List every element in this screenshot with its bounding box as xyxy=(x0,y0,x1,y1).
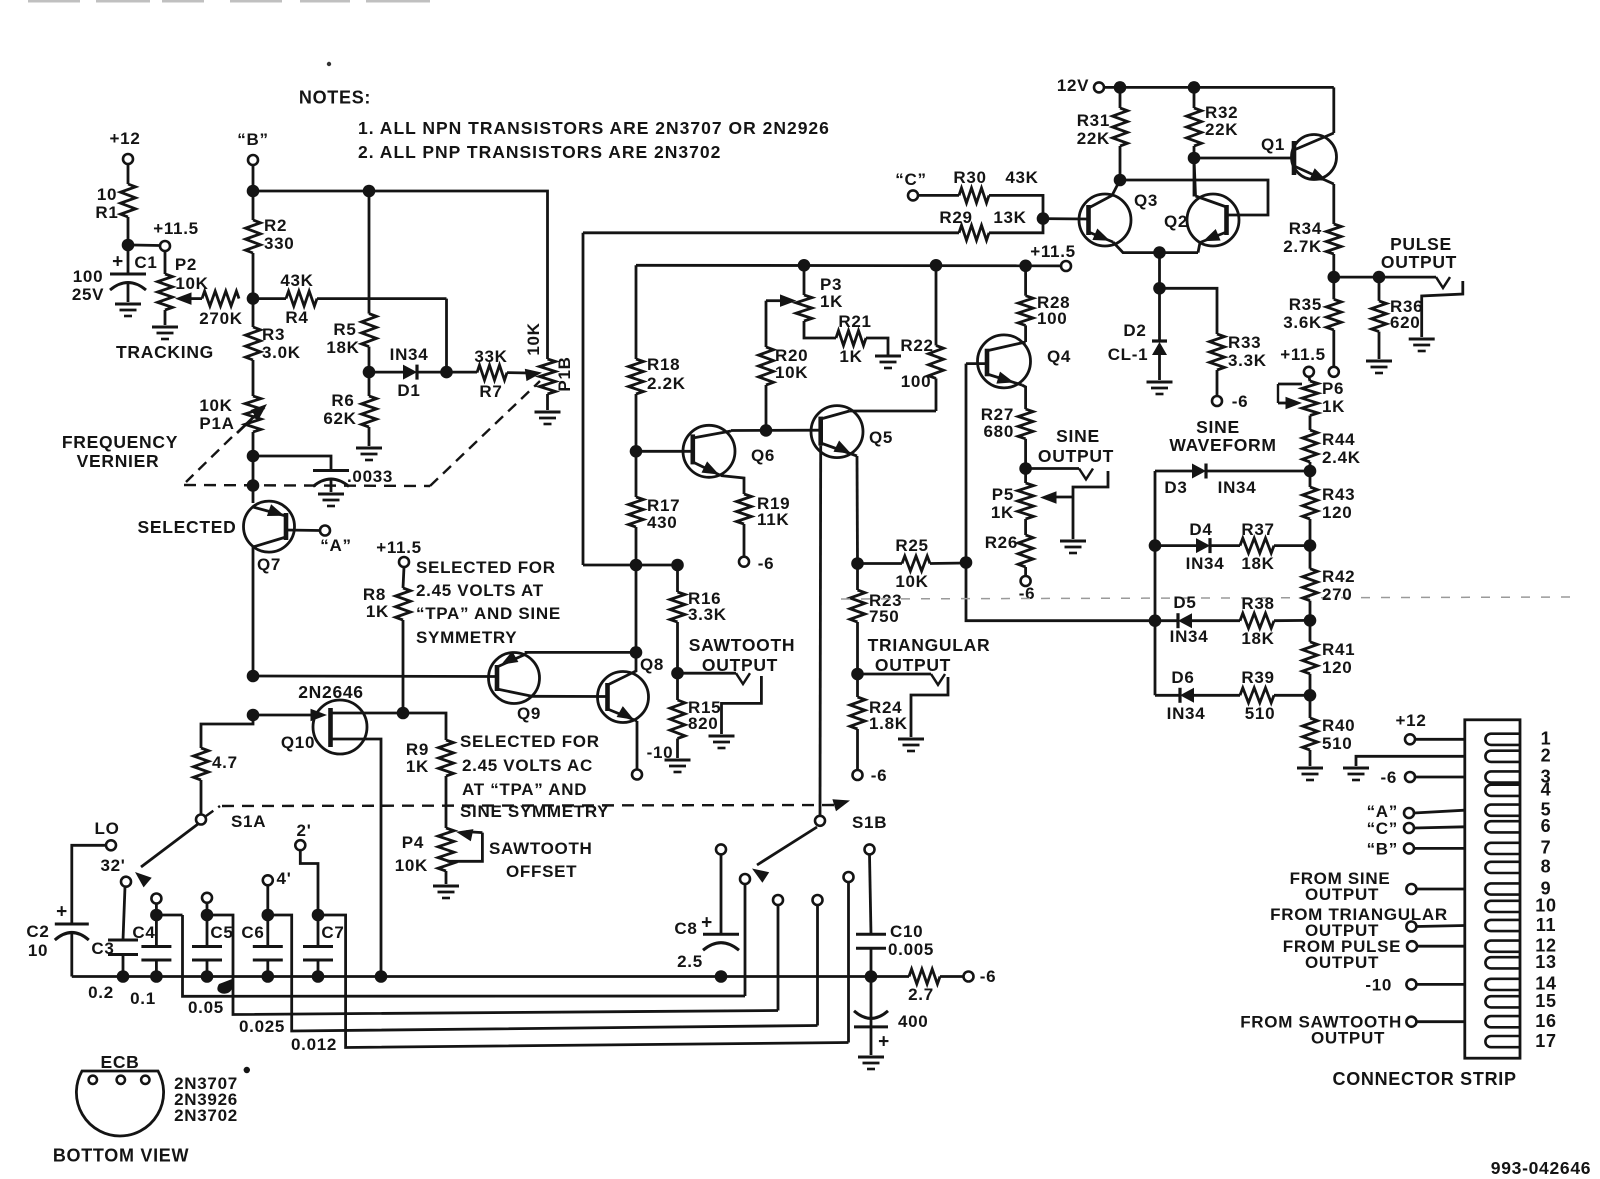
svg-text:TRIANGULAR: TRIANGULAR xyxy=(868,635,991,655)
svg-text:8: 8 xyxy=(1541,857,1552,877)
svg-text:18K: 18K xyxy=(1241,629,1274,648)
svg-text:OUTPUT: OUTPUT xyxy=(1311,1028,1385,1047)
svg-text:2': 2' xyxy=(297,821,312,840)
svg-text:R21: R21 xyxy=(838,312,871,331)
svg-text:10K: 10K xyxy=(395,856,428,875)
svg-text:“C”: “C” xyxy=(895,170,926,189)
svg-text:IN34: IN34 xyxy=(1167,704,1206,723)
svg-text:R3: R3 xyxy=(262,325,285,344)
svg-text:IN34: IN34 xyxy=(390,345,429,364)
svg-text:AT “TPA” AND: AT “TPA” AND xyxy=(462,780,587,799)
svg-text:R25: R25 xyxy=(895,536,928,555)
svg-text:680: 680 xyxy=(984,422,1014,441)
svg-text:2.45 VOLTS AT: 2.45 VOLTS AT xyxy=(416,581,544,600)
svg-text:IN34: IN34 xyxy=(1218,478,1257,497)
svg-text:13: 13 xyxy=(1535,952,1556,972)
svg-text:1K: 1K xyxy=(991,503,1014,522)
svg-text:IN34: IN34 xyxy=(1170,627,1209,646)
svg-text:1K: 1K xyxy=(406,757,429,776)
svg-text:“B”: “B” xyxy=(237,130,268,149)
svg-text:100: 100 xyxy=(901,372,931,391)
svg-text:P1B: P1B xyxy=(555,356,574,391)
svg-text:12V: 12V xyxy=(1057,76,1089,95)
svg-text:C10: C10 xyxy=(890,922,923,941)
svg-text:43K: 43K xyxy=(1005,168,1038,187)
svg-text:1K: 1K xyxy=(1322,397,1345,416)
svg-text:“A”: “A” xyxy=(320,536,351,555)
svg-text:SINE: SINE xyxy=(1056,426,1100,446)
svg-text:15: 15 xyxy=(1535,991,1556,1011)
svg-text:+11.5: +11.5 xyxy=(1030,242,1076,261)
svg-text:-6: -6 xyxy=(980,967,997,986)
svg-text:10K: 10K xyxy=(199,396,232,415)
svg-text:C7: C7 xyxy=(321,923,344,942)
svg-text:D1: D1 xyxy=(397,381,420,400)
svg-text:Q8: Q8 xyxy=(640,655,664,674)
svg-text:OUTPUT: OUTPUT xyxy=(1381,252,1457,272)
svg-text:100: 100 xyxy=(73,267,103,286)
svg-text:PULSE: PULSE xyxy=(1390,234,1452,254)
svg-text:P1A: P1A xyxy=(199,414,234,433)
svg-text:7: 7 xyxy=(1541,838,1552,858)
svg-text:Q3: Q3 xyxy=(1134,191,1158,210)
svg-text:270: 270 xyxy=(1322,585,1352,604)
svg-text:-6: -6 xyxy=(871,766,888,785)
svg-text:C8: C8 xyxy=(674,919,697,938)
svg-text:SELECTED FOR: SELECTED FOR xyxy=(416,558,556,577)
svg-text:3.3K: 3.3K xyxy=(1228,351,1267,370)
svg-text:C4: C4 xyxy=(132,923,155,942)
svg-text:D5: D5 xyxy=(1173,593,1196,612)
svg-text:22K: 22K xyxy=(1205,120,1238,139)
svg-text:10K: 10K xyxy=(775,363,808,382)
svg-text:10K: 10K xyxy=(524,322,543,355)
svg-text:13K: 13K xyxy=(993,208,1026,227)
svg-text:+12: +12 xyxy=(1396,711,1427,730)
svg-text:R44: R44 xyxy=(1322,430,1355,449)
svg-text:10: 10 xyxy=(97,185,117,204)
svg-text:R43: R43 xyxy=(1322,485,1355,504)
svg-text:+: + xyxy=(701,913,713,934)
svg-text:120: 120 xyxy=(1322,503,1352,522)
svg-text:-6: -6 xyxy=(758,554,775,573)
svg-text:LO: LO xyxy=(94,819,119,838)
svg-text:Q5: Q5 xyxy=(869,428,893,447)
svg-text:11K: 11K xyxy=(757,510,789,529)
svg-text:S1A: S1A xyxy=(231,812,266,831)
svg-text:C6: C6 xyxy=(241,923,264,942)
svg-text:R33: R33 xyxy=(1228,333,1261,352)
svg-text:4': 4' xyxy=(277,869,292,888)
svg-text:R29: R29 xyxy=(939,208,972,227)
svg-text:32': 32' xyxy=(100,856,125,875)
svg-text:R40: R40 xyxy=(1322,716,1355,735)
svg-text:R42: R42 xyxy=(1322,567,1355,586)
svg-text:OFFSET: OFFSET xyxy=(506,862,577,881)
svg-text:SINE: SINE xyxy=(1196,417,1240,437)
svg-text:10: 10 xyxy=(1535,896,1556,916)
svg-text:“C”: “C” xyxy=(1367,819,1398,838)
svg-text:330: 330 xyxy=(264,234,294,253)
svg-text:1. ALL NPN TRANSISTORS ARE 2N: 1. ALL NPN TRANSISTORS ARE 2N3707 OR 2N2… xyxy=(358,118,830,138)
svg-text:400: 400 xyxy=(898,1012,928,1031)
svg-text:3.6K: 3.6K xyxy=(1283,313,1322,332)
svg-text:510: 510 xyxy=(1245,704,1275,723)
svg-text:100: 100 xyxy=(1037,309,1067,328)
svg-text:0.012: 0.012 xyxy=(291,1035,337,1054)
svg-text:VERNIER: VERNIER xyxy=(77,451,160,471)
svg-text:+11.5: +11.5 xyxy=(376,538,422,557)
svg-text:2.5: 2.5 xyxy=(677,952,703,971)
svg-text:17: 17 xyxy=(1535,1031,1556,1051)
svg-text:D3: D3 xyxy=(1164,478,1187,497)
svg-text:SAWTOOTH: SAWTOOTH xyxy=(489,839,593,858)
svg-text:2.45 VOLTS AC: 2.45 VOLTS AC xyxy=(462,756,593,775)
svg-text:R1: R1 xyxy=(95,203,118,222)
svg-text:0.2: 0.2 xyxy=(88,983,114,1002)
svg-text:4.7: 4.7 xyxy=(212,753,238,772)
svg-text:62K: 62K xyxy=(323,409,356,428)
svg-text:C3: C3 xyxy=(91,939,114,958)
svg-text:R41: R41 xyxy=(1322,640,1355,659)
svg-text:43K: 43K xyxy=(280,271,313,290)
svg-text:SAWTOOTH: SAWTOOTH xyxy=(689,635,795,655)
svg-text:3.3K: 3.3K xyxy=(688,605,727,624)
svg-text:18K: 18K xyxy=(1241,554,1274,573)
svg-text:OUTPUT: OUTPUT xyxy=(702,655,778,675)
svg-text:R39: R39 xyxy=(1241,668,1274,687)
svg-text:R22: R22 xyxy=(900,336,933,355)
svg-text:6: 6 xyxy=(1541,816,1552,836)
svg-text:R18: R18 xyxy=(647,355,680,374)
svg-text:D2: D2 xyxy=(1123,321,1146,340)
svg-text:Q1: Q1 xyxy=(1261,135,1285,154)
svg-text:BOTTOM VIEW: BOTTOM VIEW xyxy=(53,1145,189,1165)
svg-text:270K: 270K xyxy=(199,309,242,328)
svg-text:2N2646: 2N2646 xyxy=(298,682,364,702)
svg-text:2.7K: 2.7K xyxy=(1283,237,1322,256)
svg-text:TRACKING: TRACKING xyxy=(116,342,214,362)
svg-text:Q4: Q4 xyxy=(1047,347,1071,366)
svg-text:0.05: 0.05 xyxy=(188,998,224,1017)
svg-text:WAVEFORM: WAVEFORM xyxy=(1169,435,1276,455)
svg-text:22K: 22K xyxy=(1077,129,1110,148)
svg-text:.0033: .0033 xyxy=(347,467,393,486)
svg-text:OUTPUT: OUTPUT xyxy=(1305,885,1379,904)
svg-text:S1B: S1B xyxy=(852,813,887,832)
svg-text:OUTPUT: OUTPUT xyxy=(875,655,951,675)
svg-text:CL-1: CL-1 xyxy=(1108,345,1149,364)
svg-text:1K: 1K xyxy=(820,292,843,311)
svg-text:P4: P4 xyxy=(402,833,424,852)
svg-text:D6: D6 xyxy=(1171,668,1194,687)
svg-text:+: + xyxy=(56,902,68,923)
svg-text:D4: D4 xyxy=(1189,520,1212,539)
svg-text:993-042646: 993-042646 xyxy=(1491,1158,1591,1178)
svg-text:0.005: 0.005 xyxy=(888,940,934,959)
svg-text:0.1: 0.1 xyxy=(130,989,156,1008)
svg-text:10: 10 xyxy=(28,941,48,960)
svg-text:R5: R5 xyxy=(333,320,356,339)
svg-text:R6: R6 xyxy=(331,391,354,410)
svg-text:R4: R4 xyxy=(285,308,308,327)
svg-text:33K: 33K xyxy=(474,347,507,366)
svg-text:0.025: 0.025 xyxy=(239,1017,285,1036)
svg-text:SELECTED: SELECTED xyxy=(138,517,237,537)
svg-text:-6: -6 xyxy=(1232,392,1249,411)
svg-text:25V: 25V xyxy=(72,285,104,304)
svg-text:+11.5: +11.5 xyxy=(1280,345,1326,364)
svg-text:Q6: Q6 xyxy=(751,446,775,465)
svg-text:820: 820 xyxy=(688,714,718,733)
svg-text:SELECTED FOR: SELECTED FOR xyxy=(460,732,600,751)
svg-text:IN34: IN34 xyxy=(1186,554,1225,573)
svg-text:ECB: ECB xyxy=(100,1052,139,1072)
svg-text:2. ALL PNP TRANSISTORS ARE 2N: 2. ALL PNP TRANSISTORS ARE 2N3702 xyxy=(358,142,721,162)
svg-text:10K: 10K xyxy=(895,572,928,591)
svg-text:OUTPUT: OUTPUT xyxy=(1305,953,1379,972)
svg-text:R34: R34 xyxy=(1289,219,1322,238)
svg-text:2.2K: 2.2K xyxy=(647,374,686,393)
svg-text:R30: R30 xyxy=(953,168,986,187)
svg-text:510: 510 xyxy=(1322,734,1352,753)
svg-text:+: + xyxy=(878,1032,890,1053)
svg-text:750: 750 xyxy=(869,607,899,626)
svg-text:120: 120 xyxy=(1322,658,1352,677)
svg-text:+11.5: +11.5 xyxy=(153,219,199,238)
svg-text:+12: +12 xyxy=(110,129,141,148)
svg-text:R31: R31 xyxy=(1077,111,1110,130)
svg-text:Q7: Q7 xyxy=(257,555,281,574)
svg-text:NOTES:: NOTES: xyxy=(299,87,371,107)
svg-text:-6: -6 xyxy=(1019,584,1036,603)
svg-text:“TPA” AND SINE: “TPA” AND SINE xyxy=(416,604,561,623)
svg-text:11: 11 xyxy=(1536,915,1556,935)
svg-text:2N3702: 2N3702 xyxy=(174,1106,238,1125)
svg-text:430: 430 xyxy=(647,513,677,532)
svg-text:OUTPUT: OUTPUT xyxy=(1038,446,1114,466)
svg-text:1.8K: 1.8K xyxy=(869,714,908,733)
svg-text:“B”: “B” xyxy=(1367,839,1398,858)
svg-text:+: + xyxy=(112,252,124,273)
svg-text:CONNECTOR STRIP: CONNECTOR STRIP xyxy=(1333,1069,1517,1089)
svg-text:SYMMETRY: SYMMETRY xyxy=(416,628,517,647)
svg-text:2: 2 xyxy=(1541,746,1552,766)
svg-text:3.0K: 3.0K xyxy=(262,343,301,362)
svg-text:R7: R7 xyxy=(479,382,502,401)
svg-text:-6: -6 xyxy=(1380,768,1397,787)
svg-text:620: 620 xyxy=(1390,313,1420,332)
svg-text:P5: P5 xyxy=(992,485,1014,504)
svg-text:FREQUENCY: FREQUENCY xyxy=(62,432,178,452)
svg-text:R26: R26 xyxy=(985,533,1018,552)
svg-text:C2: C2 xyxy=(26,922,49,941)
svg-text:Q10: Q10 xyxy=(281,733,315,752)
svg-text:4: 4 xyxy=(1541,780,1552,800)
svg-text:R38: R38 xyxy=(1241,594,1274,613)
svg-text:Q9: Q9 xyxy=(517,704,541,723)
svg-text:Q2: Q2 xyxy=(1164,212,1188,231)
svg-text:P6: P6 xyxy=(1322,379,1344,398)
svg-text:R2: R2 xyxy=(264,216,287,235)
svg-text:2.4K: 2.4K xyxy=(1322,448,1361,467)
svg-text:1K: 1K xyxy=(366,602,389,621)
svg-text:16: 16 xyxy=(1535,1011,1556,1031)
svg-text:R35: R35 xyxy=(1289,295,1322,314)
svg-text:18K: 18K xyxy=(326,338,359,357)
svg-text:P2: P2 xyxy=(175,255,197,274)
svg-text:-10: -10 xyxy=(1365,975,1392,994)
svg-text:R37: R37 xyxy=(1241,520,1274,539)
svg-text:C5: C5 xyxy=(210,923,233,942)
svg-text:2.7: 2.7 xyxy=(908,985,934,1004)
svg-text:1K: 1K xyxy=(839,347,862,366)
svg-text:C1: C1 xyxy=(134,253,157,272)
